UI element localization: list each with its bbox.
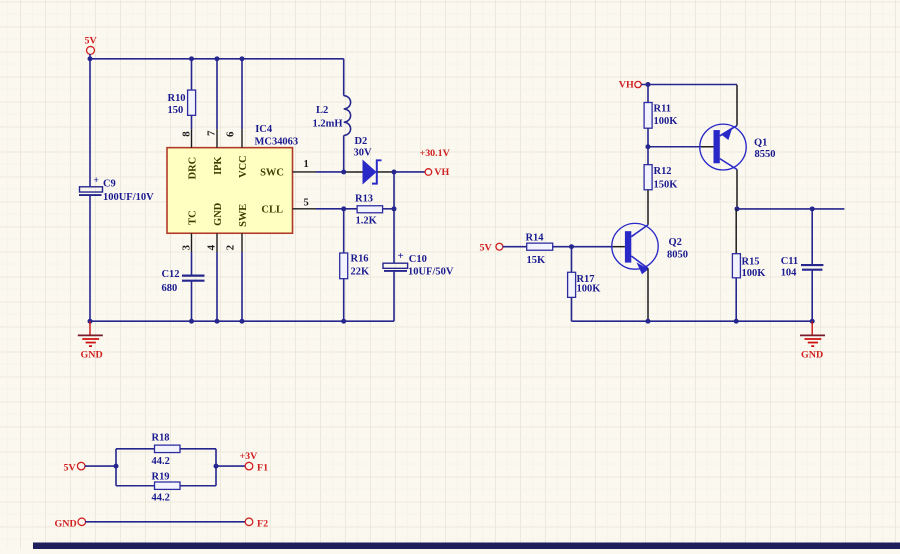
terminal VH (right circuit) <box>619 80 641 91</box>
svg-text:4: 4 <box>206 244 218 250</box>
wire C9 to gnd rail <box>89 195 91 321</box>
svg-text:VH: VH <box>434 167 449 178</box>
ground symbol GND (right) <box>800 321 825 360</box>
resistor R19 44.2 <box>116 471 216 503</box>
resistor R13 1.2K <box>355 193 383 226</box>
svg-text:8: 8 <box>181 131 193 137</box>
svg-text:F1: F1 <box>257 462 268 473</box>
svg-text:MC34063: MC34063 <box>254 136 298 147</box>
IC4 pin 1 SWC <box>260 159 316 178</box>
junction gnd rail at C9 <box>88 319 93 324</box>
svg-text:5: 5 <box>304 197 309 208</box>
junction node on 5V rail pin8 <box>189 56 194 61</box>
wire L2 column down to R16 <box>343 209 345 253</box>
wire SWC node to diode <box>316 171 346 173</box>
svg-text:5V: 5V <box>84 36 97 47</box>
svg-text:6: 6 <box>225 131 237 137</box>
svg-text:1: 1 <box>304 159 309 170</box>
junction gnd rail at pin2 <box>240 319 245 324</box>
resistor R17 100K <box>568 247 602 322</box>
resistor R11 100K <box>644 84 678 146</box>
wire pin3 to C12 <box>191 252 193 275</box>
junction rail / C11 <box>810 206 815 211</box>
svg-text:+: + <box>398 250 404 262</box>
svg-text:C10: C10 <box>409 254 427 265</box>
capacitor C9 100UF/10V <box>79 176 154 203</box>
junction gnd rail at C11 <box>810 319 815 324</box>
svg-text:R18: R18 <box>152 432 170 443</box>
wire base node to Q1 <box>648 146 701 148</box>
wire right node to F1 <box>216 465 246 467</box>
svg-text:+3V: +3V <box>240 451 259 462</box>
capacitor C12 680 <box>162 269 205 294</box>
resistor R10 150 <box>168 59 196 129</box>
transistor Q1 8550 (PNP) <box>700 88 776 209</box>
wire C10 to gnd rail <box>393 271 395 321</box>
svg-text:C11: C11 <box>781 256 798 267</box>
svg-text:100K: 100K <box>577 283 602 294</box>
svg-text:GND: GND <box>801 349 823 360</box>
svg-text:F2: F2 <box>257 518 268 529</box>
IC4 pin 8 DRC <box>181 129 199 179</box>
svg-text:R12: R12 <box>654 166 672 177</box>
IC4 pin 5 CLL <box>261 197 316 215</box>
terminal GND (bottom) <box>55 518 86 529</box>
ground symbol GND (left) <box>78 321 103 360</box>
junction R14/R17/Q2 base <box>569 244 574 249</box>
transistor Q2 8050 (NPN) <box>612 223 688 321</box>
svg-text:Q1: Q1 <box>754 137 767 148</box>
svg-text:GND: GND <box>213 202 224 225</box>
wire VH node down to CLL node <box>393 172 395 209</box>
IC4 pin 7 IPK <box>205 129 224 175</box>
wire gnd rail (left circuit) <box>90 320 394 322</box>
svg-text:R11: R11 <box>654 104 671 115</box>
power terminal 5V (top left) <box>84 36 97 59</box>
resistor R14 15K <box>526 233 553 266</box>
svg-text:IPK: IPK <box>213 156 224 175</box>
wire 5V to left junction <box>85 465 116 467</box>
resistor R18 44.2 <box>116 432 216 467</box>
wire right branch vertical <box>215 449 217 486</box>
terminal 5V (right circuit) <box>480 243 503 254</box>
junction gnd rail at Q2 emitter <box>646 319 651 324</box>
svg-text:8050: 8050 <box>667 249 688 260</box>
junction VH rail at R11 <box>646 82 651 87</box>
svg-text:L2: L2 <box>316 105 328 116</box>
svg-text:150: 150 <box>168 105 184 116</box>
svg-text:44.2: 44.2 <box>152 456 170 467</box>
svg-text:R16: R16 <box>351 254 369 265</box>
svg-text:30V: 30V <box>354 148 373 159</box>
svg-text:VCC: VCC <box>238 155 249 177</box>
wire R13 to VH column <box>383 208 394 210</box>
wire diode to VH tap <box>392 171 425 173</box>
junction gnd rail at R16 <box>341 319 346 324</box>
wire R14 to base node <box>553 246 572 248</box>
terminal 5V (bottom block) <box>64 462 85 473</box>
svg-text:44.2: 44.2 <box>152 493 170 504</box>
wire pin7 vertical <box>216 59 218 129</box>
svg-text:VH: VH <box>619 80 634 91</box>
wire Q1 collector rail <box>737 208 844 210</box>
svg-text:+: + <box>94 176 99 186</box>
svg-text:R15: R15 <box>742 256 760 267</box>
junction R11/R12/Q1 base <box>646 144 651 149</box>
wire C12 to gnd rail <box>191 281 193 322</box>
junction node on 5V rail at C9 <box>88 56 93 61</box>
junction gnd rail at pin4 <box>215 319 220 324</box>
svg-text:5V: 5V <box>64 462 77 473</box>
wire pin6 vertical <box>241 59 243 129</box>
svg-text:R19: R19 <box>152 471 170 482</box>
terminal VH (left circuit) <box>425 167 449 178</box>
svg-text:100K: 100K <box>654 116 679 127</box>
wire CLL pin to R13 <box>316 208 357 210</box>
svg-text:TC: TC <box>187 210 198 224</box>
resistor R12 150K <box>644 147 678 191</box>
capacitor C11 104 <box>781 209 824 321</box>
wire pin4 to gnd rail <box>216 252 218 321</box>
junction right node (R18/R19) <box>214 464 219 469</box>
svg-text:104: 104 <box>781 267 798 278</box>
junction node on 5V rail pin7 <box>215 56 220 61</box>
terminal F1 <box>245 462 268 473</box>
capacitor C10 10UF/50V <box>383 250 454 277</box>
svg-text:D2: D2 <box>355 136 368 147</box>
wire left branch verticals <box>115 449 117 486</box>
wire R12 to Q2 collector <box>647 190 649 225</box>
junction SWC/L2/D2 node <box>341 169 346 174</box>
svg-text:680: 680 <box>162 283 178 294</box>
svg-text:150K: 150K <box>654 179 679 190</box>
svg-text:1.2mH: 1.2mH <box>313 119 343 130</box>
svg-text:DRC: DRC <box>187 157 198 179</box>
svg-text:22K: 22K <box>351 266 371 277</box>
junction gnd rail at pin3 <box>189 319 194 324</box>
junction left node (R18/R19) <box>114 464 119 469</box>
junction VH tap node <box>392 169 397 174</box>
inductor L2 1.2mH <box>313 59 351 172</box>
svg-text:7: 7 <box>205 130 217 136</box>
svg-text:3: 3 <box>181 244 193 250</box>
svg-text:R10: R10 <box>168 93 186 104</box>
IC4 pin 6 VCC <box>225 129 249 178</box>
svg-text:+30.1V: +30.1V <box>419 148 450 159</box>
svg-text:1.2K: 1.2K <box>356 216 378 227</box>
svg-text:R13: R13 <box>355 193 373 204</box>
junction Q1 collector / R15 <box>735 206 740 211</box>
IC4 pin 2 SWE <box>225 204 249 252</box>
wire 5V to R14 <box>503 246 527 248</box>
wire R16 to gnd rail <box>343 279 345 321</box>
wire gnd rail (right circuit) <box>572 320 813 322</box>
resistor R16 22K <box>340 253 370 279</box>
svg-text:GND: GND <box>55 518 77 529</box>
svg-text:SWE: SWE <box>238 204 249 227</box>
svg-text:Q2: Q2 <box>669 237 682 248</box>
wire pin2 to gnd rail <box>241 252 243 321</box>
terminal F2 <box>245 518 268 529</box>
IC4 pin 3 TC <box>181 210 199 252</box>
svg-text:C9: C9 <box>103 179 116 190</box>
IC IC4 MC34063 body <box>167 124 298 233</box>
svg-text:8550: 8550 <box>755 149 776 160</box>
svg-text:R14: R14 <box>526 233 545 244</box>
junction R13/VH column <box>392 206 397 211</box>
junction gnd rail at R15 <box>734 319 739 324</box>
svg-text:SWC: SWC <box>260 168 284 179</box>
svg-text:2: 2 <box>225 245 237 250</box>
diode D2 30V (schottky) <box>346 136 392 183</box>
wire VH column down to C10 <box>393 209 395 263</box>
svg-text:CLL: CLL <box>261 205 283 216</box>
svg-text:GND: GND <box>80 349 102 360</box>
junction at L2 column / CLL <box>341 206 346 211</box>
IC4 pin 4 GND <box>206 202 224 252</box>
wire VH top rail <box>641 84 737 87</box>
svg-text:15K: 15K <box>527 255 547 266</box>
svg-text:C12: C12 <box>162 269 180 280</box>
junction node on 5V rail pin6 <box>240 56 245 61</box>
bottom scrollbar bar <box>33 543 900 550</box>
wire top 5V rail <box>90 59 344 187</box>
wire GND to F2 <box>85 521 245 523</box>
svg-text:5V: 5V <box>480 243 493 254</box>
svg-text:10UF/50V: 10UF/50V <box>408 266 454 277</box>
wire base node to Q2 <box>572 246 613 248</box>
resistor R15 100K <box>732 209 766 321</box>
svg-text:IC4: IC4 <box>255 124 273 135</box>
svg-text:100UF/10V: 100UF/10V <box>103 192 154 203</box>
svg-text:100K: 100K <box>742 268 767 279</box>
